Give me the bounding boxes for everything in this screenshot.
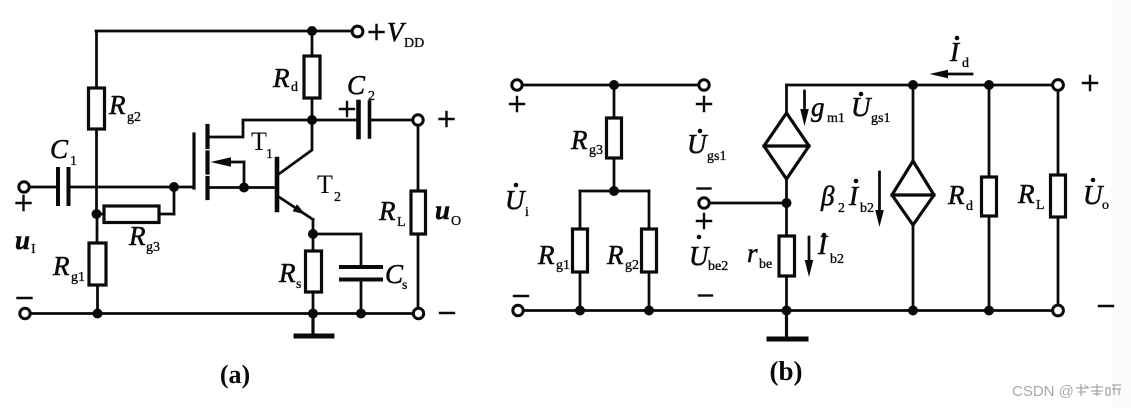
svg-text:O: O (451, 214, 461, 229)
wire input to C1 (30, 186, 56, 189)
svg-text:(a): (a) (220, 360, 250, 389)
label Ui dot (514, 183, 519, 188)
svg-text:2: 2 (368, 89, 375, 104)
svg-text:g3: g3 (146, 240, 160, 255)
svg-text:u: u (435, 195, 450, 225)
wire T2 collector (278, 120, 313, 175)
wire C1 to gate (71, 186, 194, 189)
terminal bottom-left circle (20, 308, 30, 318)
svg-text:g3: g3 (589, 143, 603, 158)
svg-text:o: o (1102, 198, 1109, 213)
terminal output top circle (413, 115, 423, 125)
svg-text:C: C (347, 70, 366, 100)
node A: divider node dot (92, 209, 102, 219)
transistor T2 base bar (275, 159, 280, 210)
svg-text:U: U (851, 92, 872, 122)
label Id dot (955, 36, 960, 41)
svg-text:s: s (296, 277, 301, 292)
plus sign VDD (370, 25, 384, 39)
svg-text:R: R (1017, 179, 1035, 209)
svg-text:1: 1 (266, 147, 273, 162)
svg-text:R: R (272, 63, 290, 93)
terminal (b) input top circle (512, 80, 522, 90)
terminal Uo bottom circle (1053, 305, 1064, 316)
svg-text:d: d (291, 80, 298, 95)
node: beta source bottom junction (908, 306, 918, 316)
node: divider node (b) (609, 186, 619, 196)
svg-text:g1: g1 (71, 270, 85, 285)
svg-text:g: g (811, 92, 825, 122)
arrow gm1Ugs1 direction (800, 91, 809, 126)
svg-text:u: u (15, 225, 30, 255)
wire rbe top lead (785, 203, 788, 236)
transistor T1 channel dash top (205, 126, 209, 147)
svg-text:be2: be2 (708, 259, 728, 274)
svg-text:m1: m1 (827, 111, 845, 126)
wire C2 to output terminal (371, 119, 413, 122)
wire Rg3 right lead (159, 213, 174, 216)
transistor T2 emitter with arrow (278, 196, 314, 220)
label Ugs1 (source) dot (859, 92, 864, 97)
svg-text:b2: b2 (860, 201, 874, 216)
node: Rd bottom junction (307, 115, 317, 125)
terminal Ugs1 top circle (699, 80, 709, 90)
svg-text:gs1: gs1 (871, 111, 890, 126)
plus sign (b) Ugs1 (697, 97, 711, 111)
plus sign (b) Uo top (1083, 76, 1097, 90)
wire T1 drain (209, 120, 312, 137)
arrow beta2Ib2 direction (875, 172, 884, 227)
transistor T1 substrate arrow (211, 157, 245, 167)
svg-text:R: R (378, 196, 396, 226)
svg-text:s: s (402, 278, 407, 293)
terminal Uo top circle (1053, 80, 1064, 91)
wire Rg3b bottom lead (613, 158, 616, 191)
minus sign (b) Ube2 bottom (699, 294, 712, 296)
resistor Rg1 (b) (573, 229, 588, 272)
resistor Rg2 (89, 88, 105, 129)
svg-text:be: be (759, 257, 772, 272)
wire (b) bottom rail (524, 309, 1053, 312)
resistor RL (411, 191, 426, 234)
resistor Rg1 (89, 243, 106, 285)
terminal Ube2 circle (699, 198, 709, 208)
capacitor C2 (359, 102, 370, 137)
wire rbe bottom lead (785, 276, 788, 311)
current source gm1Ugs1 diamond (764, 113, 809, 179)
svg-text:d: d (962, 56, 969, 71)
terminal +VDD circle (352, 26, 363, 37)
svg-text:R: R (108, 90, 126, 120)
ground (b) (769, 311, 806, 340)
svg-text:1: 1 (70, 154, 77, 169)
label Ube2 dot (697, 235, 702, 240)
minus sign input bottom (a) (18, 297, 32, 299)
wire Rg3b top lead (613, 85, 616, 118)
label Ib2 (beta) dot (854, 179, 859, 184)
watermark glyph 3 (1106, 385, 1121, 395)
transistor T1 gate bar (192, 134, 195, 188)
resistor Rd (304, 56, 320, 98)
watermark glyph 1 (1076, 384, 1089, 396)
terminal output bottom circle (413, 308, 423, 318)
wire Rg2 branch upper (95, 31, 98, 88)
wire emitter to Cs (313, 234, 361, 265)
svg-text:d: d (966, 199, 973, 214)
svg-text:DD: DD (404, 36, 424, 51)
minus sign output bottom (a) (440, 312, 454, 314)
svg-text:2: 2 (838, 201, 845, 216)
wire Rg2b bottom lead (648, 272, 651, 311)
node: Rdb top junction (984, 80, 994, 90)
terminal (b) bottom-left circle (513, 305, 523, 315)
svg-text:R: R (570, 125, 588, 155)
wire Rg2b top lead (648, 191, 651, 229)
wire RLb top lead (1057, 91, 1060, 175)
resistor Rs (306, 251, 322, 292)
label Ugs1 dot (698, 129, 703, 134)
node: Rg3b top junction (609, 80, 619, 90)
svg-text:β: β (820, 181, 835, 211)
node: emitter junction (308, 229, 318, 239)
svg-text:L: L (1036, 198, 1045, 213)
svg-text:U: U (687, 129, 708, 159)
resistor Rg3 (104, 206, 159, 223)
capacitor C1 (58, 169, 69, 204)
plus sign (b) input (510, 97, 524, 111)
wire gm source bottom lead (785, 179, 788, 203)
terminal input circle (19, 182, 29, 192)
svg-text:T: T (251, 127, 267, 156)
wire Rs top lead (312, 234, 315, 251)
node: junction top rail / Rd (307, 26, 317, 36)
wire gm source top lead (785, 85, 788, 113)
resistor Rg2 (b) (642, 229, 657, 272)
svg-text:R: R (537, 240, 555, 270)
wire Rg3 left lead (97, 213, 105, 216)
svg-text:R: R (606, 240, 624, 270)
wire T1 source (209, 186, 244, 189)
wire RLb bottom lead (1057, 217, 1060, 305)
arrow Id on top rail (930, 70, 973, 79)
svg-text:U: U (505, 185, 526, 215)
svg-text:R: R (128, 221, 146, 251)
svg-text:R: R (52, 251, 70, 281)
node: Rs bottom junction (308, 309, 318, 319)
minus sign (b) input bottom (514, 295, 528, 297)
resistor Rg3 (b) (607, 118, 622, 158)
wire beta source bottom lead (912, 225, 915, 311)
svg-text:b2: b2 (830, 252, 844, 267)
wire Rd top lead (311, 31, 314, 56)
wire: top rail from Rg2 to VDD terminal (96, 30, 352, 33)
node: Cs bottom junction (356, 309, 366, 319)
plus sign input (a) (17, 196, 31, 210)
wire Ube2 to rbe node (710, 202, 787, 205)
node: Rg1b bottom (575, 306, 585, 316)
wire divider horizontal (b) (580, 190, 649, 193)
svg-text:2: 2 (334, 190, 341, 205)
node: rbe top junction (782, 198, 792, 208)
plus sign output top (a) (440, 112, 454, 126)
wire node to C2 (312, 119, 356, 122)
wire Rs bottom lead (312, 292, 315, 314)
svg-text:I: I (31, 242, 36, 257)
watermark glyph 2 (1091, 384, 1103, 396)
wire RL bottom lead (417, 234, 420, 308)
svg-text:C: C (50, 134, 69, 164)
wire Rg1 bottom lead (96, 285, 99, 314)
wire source to T2 base (244, 186, 274, 189)
svg-text:(b): (b) (770, 356, 803, 386)
plus sign C2 (340, 102, 354, 116)
capacitor Cs (341, 267, 381, 280)
plus sign (b) Ube2 (697, 214, 711, 228)
wire gate node down (173, 187, 176, 214)
wire (b) top-right rail (787, 84, 1053, 87)
node: beta source top junction (908, 80, 918, 90)
resistor Rd (b) (982, 177, 997, 216)
wire Rd bottom lead (311, 98, 314, 120)
wire (b) input top rail (523, 84, 698, 87)
wire Rdb top lead (988, 85, 991, 177)
transistor T1 channel dash bottom (205, 178, 209, 198)
svg-text:g1: g1 (556, 258, 570, 273)
label Uo dot (1091, 178, 1096, 183)
svg-text:gs1: gs1 (707, 149, 726, 164)
wire Cs bottom lead (360, 282, 363, 314)
wire Rg1b top lead (579, 191, 582, 229)
wire beta source top lead (912, 85, 915, 161)
svg-text:L: L (397, 215, 406, 230)
node: Rg1 bottom junction (93, 309, 103, 319)
svg-text:g2: g2 (625, 258, 639, 273)
svg-text:U: U (1083, 180, 1104, 210)
resistor rbe (779, 236, 795, 276)
wire Rdb bottom lead (988, 216, 991, 311)
ground (a) (296, 314, 332, 337)
wire T1 substrate to source (243, 162, 246, 188)
node: ground node (b) (782, 306, 792, 316)
resistor RL (b) (1051, 175, 1066, 217)
svg-text:CSDN @: CSDN @ (1012, 383, 1074, 400)
node: Rdb bottom junction (984, 306, 994, 316)
node B: gate node dot (169, 182, 179, 192)
svg-text:R: R (278, 258, 296, 288)
svg-text:r: r (747, 238, 758, 268)
wire Rg2 branch lower (crosses input wire) (95, 129, 98, 214)
transistor T1 channel dash middle (205, 153, 209, 173)
minus sign (b) Ube2 top (698, 187, 711, 189)
svg-text:T: T (317, 170, 333, 199)
svg-text:U: U (689, 241, 710, 271)
label Ib2 dot (rbe branch) (822, 233, 827, 238)
node: Rg2b bottom (644, 306, 654, 316)
node: T1 source junction (239, 183, 249, 193)
svg-text:g2: g2 (127, 110, 141, 125)
wire Rg1b bottom lead (579, 272, 582, 311)
minus sign (b) Uo bottom (1099, 305, 1113, 307)
wire bottom rail (a) (31, 312, 413, 315)
arrow Ib2 beside rbe (805, 237, 814, 277)
wire Rg1 top lead (96, 214, 99, 243)
wire RL top lead (417, 126, 420, 191)
svg-text:R: R (947, 180, 965, 210)
current source beta2Ib2 diamond (892, 161, 934, 225)
svg-text:i: i (525, 205, 529, 220)
wire emitter down (312, 220, 315, 235)
